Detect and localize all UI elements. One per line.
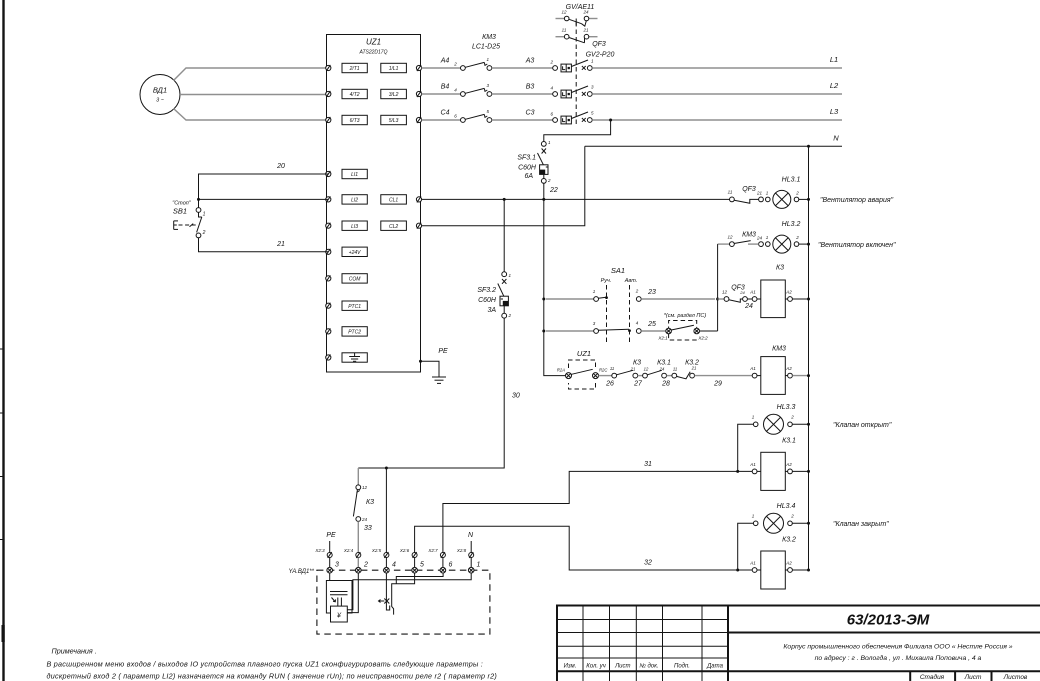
svg-text:PTC1: PTC1 [348,304,361,310]
svg-text:LI3: LI3 [351,224,358,230]
svg-text:КМ3: КМ3 [742,232,756,239]
QF3 pole 3 [550,111,594,124]
UZ1 terminal 4/T2 [326,89,368,98]
notes text [47,647,498,681]
GV/AE11 NC contact 11-21 [556,28,598,43]
svg-text:PE: PE [326,532,336,539]
svg-text:C4: C4 [441,110,450,117]
UZ1 terminal PTC2 [326,327,368,336]
UZ1 terminal LI3 [326,221,368,230]
document number 63/2013-ЭМ [847,612,930,629]
svg-text:LI2: LI2 [351,198,358,204]
stop button SB1 [172,201,205,238]
svg-text:Лист: Лист [614,664,630,670]
PE ground symbol [419,348,448,383]
wire 26 / contact K3 27 / contact K3.1 28 / contact K3.2 29 [599,360,753,388]
svg-text:12: 12 [362,485,368,490]
svg-text:X2:5: X2:5 [371,548,382,553]
relay coil K3.2 [749,551,810,589]
soft starter UZ1 ATS22D17Q block [327,35,421,373]
svg-text:SA1: SA1 [611,266,625,275]
svg-text:HL3.3: HL3.3 [777,404,796,411]
svg-text:A3: A3 [525,58,535,65]
svg-text:6: 6 [449,562,453,569]
svg-text:GV2-P20: GV2-P20 [586,52,615,59]
svg-text:2: 2 [547,178,551,183]
wire B3 [492,84,553,95]
svg-text:11: 11 [562,28,567,33]
svg-text:5/L3: 5/L3 [389,118,399,124]
svg-text:31: 31 [644,461,652,468]
KM3 aux contact 12-24 [718,232,764,247]
breaker SF3.1 C60H 6A [517,140,558,199]
svg-text:КМ3: КМ3 [772,346,786,353]
svg-text:В расширенном меню входов / вы: В расширенном меню входов / выходов IO у… [47,660,484,669]
svg-text:2/T1: 2/T1 [349,66,360,72]
svg-text:Листов: Листов [1003,674,1028,681]
wire A4 [422,58,461,69]
svg-text:2: 2 [453,62,457,67]
svg-text:КМ3: КМ3 [482,34,496,41]
svg-text:3 ~: 3 ~ [156,98,165,104]
svg-text:2: 2 [795,235,799,240]
svg-text:2: 2 [795,191,799,196]
svg-text:COM: COM [349,277,362,283]
svg-text:2: 2 [363,562,368,569]
svg-text:"Клапан открыт": "Клапан открыт" [833,422,892,429]
svg-text:A2: A2 [785,462,792,467]
svg-text:3А: 3А [487,307,496,314]
terminal X2:3 (PE) [314,532,336,567]
UZ1 terminal CL2 [381,221,422,230]
svg-text:20: 20 [276,163,285,170]
svg-text:C3: C3 [526,110,535,117]
QF3 pole 1 [549,59,594,72]
svg-text:11: 11 [728,190,733,195]
svg-text:C60H: C60H [518,165,537,172]
UZ1 terminal 2/T1 [326,63,368,72]
svg-text:К3: К3 [366,499,374,506]
svg-text:ВД1: ВД1 [153,86,167,95]
wire 25 / SA1 contact 3-4 [546,321,666,334]
svg-text:24: 24 [582,10,589,15]
border tick marks [0,349,5,642]
svg-text:SB1: SB1 [173,207,187,216]
svg-text:UZ1: UZ1 [366,38,381,47]
contactor KM3 main contact C4 [461,109,492,122]
contactor KM3 main contact A4 [461,57,492,70]
QF3 pole 2 [550,85,594,98]
circuit breaker QF3 GV2-P20 label [586,41,615,59]
motor ВД1 [140,75,180,115]
remote contact X2:1-X2:2 (см. раздел ПС) [657,313,708,341]
svg-text:2: 2 [549,60,553,65]
wire motor phase B [180,94,328,96]
svg-text:A4: A4 [440,58,450,65]
breaker SF3.2 C60H 3A [477,199,511,318]
svg-text:"Клапан закрыт": "Клапан закрыт" [833,521,889,528]
svg-text:CL1: CL1 [389,198,398,204]
svg-text:1/L1: 1/L1 [389,66,399,72]
svg-text:5: 5 [420,562,424,569]
svg-text:LC1-D25: LC1-D25 [472,44,500,51]
wire X2:5 drop [385,468,387,553]
svg-text:PTC2: PTC2 [348,330,361,336]
QF3 aux contact to K3 [718,285,753,311]
svg-text:B3: B3 [526,84,535,91]
svg-text:Дата: Дата [706,664,723,670]
svg-text:L2: L2 [830,81,839,90]
wire LI2 [197,198,328,201]
svg-text:2: 2 [790,514,794,519]
QF3 aux contact 11-21 [728,186,764,203]
svg-text:21: 21 [582,28,589,33]
svg-text:24: 24 [756,236,763,241]
selector switch SA1 [601,266,638,344]
wire L2 [592,81,842,94]
svg-text:21: 21 [630,367,636,372]
svg-text:C60H: C60H [478,297,497,304]
svg-text:1: 1 [203,212,206,218]
svg-text:К3.2: К3.2 [782,537,796,544]
UZ1 terminal 6/T3 [326,115,368,124]
svg-text:№ док.: № док. [639,663,658,670]
svg-text:24: 24 [739,290,745,295]
project address [783,643,1012,663]
svg-text:A1: A1 [749,366,756,371]
label Вентилятор авария [820,197,894,204]
terminal X2:5 [371,548,389,567]
stage sheet headers [920,673,1028,681]
svg-text:"Вентилятор авария": "Вентилятор авария" [820,197,894,204]
svg-text:X2:2: X2:2 [697,336,708,341]
wire 23 / SA1 contact 1-2 [546,289,715,302]
wire 31 [443,461,752,553]
svg-text:25: 25 [647,321,656,328]
wire 20 (LI1) [199,163,329,208]
title block headers [564,663,724,670]
UZ1 relay contact R2A-R2C [557,349,609,389]
svg-text:К3.1: К3.1 [782,438,796,445]
svg-text:12: 12 [722,290,728,295]
wire CL1 bus [422,198,730,201]
svg-text:23: 23 [647,289,656,296]
svg-text:HL3.1: HL3.1 [782,177,801,184]
contactor KM3 main contact B4 [461,83,492,96]
svg-text:4: 4 [392,562,396,569]
svg-text:R2C: R2C [599,368,608,373]
N vertical bus [808,146,810,570]
svg-text:A2: A2 [785,290,792,295]
svg-text:24: 24 [744,303,753,310]
wire from L3 to SF3.1 [544,120,611,141]
svg-text:12: 12 [727,235,733,240]
svg-text:дискретный вход 2 ( параметр: дискретный вход 2 ( параметр LI2) назнач… [47,672,498,681]
label Клапан закрыт [833,521,889,528]
valve unit YA.ВД1 dashed box [289,569,490,634]
terminal X2:8 (N) [456,532,474,567]
svg-text:X2:8: X2:8 [456,548,467,553]
label Клапан открыт [833,422,892,429]
svg-text:21: 21 [756,191,763,196]
lamp HL3.4 [738,503,810,570]
svg-text:2: 2 [635,289,639,294]
YA pin 6 [440,562,452,574]
svg-text:12: 12 [644,367,649,372]
wire motor phase C [174,109,329,121]
svg-text:6/T3: 6/T3 [350,118,360,124]
svg-text:PE: PE [438,348,448,355]
svg-text:X2:7: X2:7 [427,548,438,553]
svg-text:Руч.: Руч. [601,278,612,284]
svg-text:L3: L3 [830,107,839,116]
svg-text:*(см. раздел ПС): *(см. раздел ПС) [664,313,707,319]
svg-text:27: 27 [633,381,643,388]
title block grid [556,606,1040,681]
svg-text:22: 22 [549,187,558,194]
svg-text:63/2013-ЭМ: 63/2013-ЭМ [847,612,930,629]
terminal X2:6 [399,548,417,567]
svg-text:2: 2 [790,415,794,420]
wire A3 [492,58,553,69]
UZ1 terminal CL1 [381,195,422,204]
svg-text:4/T2: 4/T2 [350,92,360,98]
svg-text:L1: L1 [830,55,838,64]
terminal X2:4 [343,548,361,567]
svg-text:X2:3: X2:3 [314,548,325,553]
svg-text:К3: К3 [633,360,641,367]
QF3 mechanical link dashed line [575,22,577,127]
svg-text:X2:4: X2:4 [343,548,354,553]
svg-text:3: 3 [335,562,339,569]
svg-text:по адресу : г . Вологда , ул: по адресу : г . Вологда , ул . Михаила П… [815,654,982,662]
GV/AE11 NO contact 12-24 [556,10,598,27]
YA pin 2 [356,562,369,574]
UZ1 terminal 1/L1 [381,63,422,72]
wire C3 [492,110,553,121]
flow switch symbol [379,599,390,604]
svg-text:UZ1: UZ1 [577,349,591,358]
wire motor phase A [174,68,329,81]
wire 30 [358,318,520,469]
label Вентилятор включен [818,242,896,249]
wire B4 [422,84,461,95]
lamp HL3.3 [738,404,810,471]
svg-text:Корпус промышленного обеспечен: Корпус промышленного обеспечения Филиала… [783,643,1012,651]
UZ1 terminal PTC1 [326,301,368,310]
svg-text:11: 11 [610,366,614,371]
svg-text:YA.ВД1**: YA.ВД1** [289,569,315,575]
svg-text:Стадия: Стадия [920,673,945,681]
terminal X2:7 [427,548,445,567]
svg-text:К3.1: К3.1 [657,360,671,367]
wire X2:2 to node [700,330,718,332]
relay coil K3 [747,265,810,318]
svg-text:"Вентилятор включен": "Вентилятор включен" [818,242,896,249]
svg-text:B4: B4 [441,84,450,91]
svg-text:LI1: LI1 [351,172,358,178]
svg-text:2: 2 [202,230,206,236]
valve internal wiring [347,573,471,615]
svg-text:21: 21 [276,241,285,248]
wire L1 [592,55,842,68]
svg-text:A2: A2 [785,561,792,566]
auxiliary contact block GV/AE11 [566,4,595,11]
svg-text:32: 32 [644,560,652,567]
svg-text:Изм.: Изм. [564,664,577,670]
lamp HL3.1 [766,177,811,209]
svg-text:A1: A1 [749,290,756,295]
K3 aux contact 12-24 (wire 33) [353,468,374,553]
YA pin 3 [327,562,339,574]
border frame left line [2,0,4,681]
svg-text:CL2: CL2 [389,224,398,230]
svg-text:6А: 6А [524,173,533,180]
svg-text:ATS22D17Q: ATS22D17Q [359,50,388,56]
svg-text:12: 12 [561,10,567,15]
relay coil K3.1 [749,452,810,490]
svg-text:GV/AE11: GV/AE11 [566,4,595,11]
svg-text:HL3.4: HL3.4 [777,503,796,510]
svg-text:Авт.: Авт. [624,278,638,284]
svg-text:Подп.: Подп. [674,664,690,670]
YA pin 1 [468,562,480,574]
svg-text:3/L2: 3/L2 [389,92,399,98]
wire 21 (+24V) [199,238,329,252]
svg-text:SF3.2: SF3.2 [477,287,496,294]
svg-text:28: 28 [661,381,670,388]
svg-text:A1: A1 [749,561,756,566]
wire CL2 to N [422,146,585,225]
svg-text:A1: A1 [749,462,756,467]
UZ1 terminal COM [326,274,368,283]
svg-text:X2:6: X2:6 [399,548,410,553]
UZ1 terminal LI2 [326,195,368,204]
svg-text:26: 26 [605,381,614,388]
UZ1 ground terminal [326,353,368,362]
svg-text:30: 30 [512,393,520,400]
svg-text:Лист: Лист [964,674,982,681]
contactor coil KM3 [749,346,810,395]
lamp HL3.2 [766,221,811,253]
svg-text:К3: К3 [776,265,784,272]
svg-text:A2: A2 [785,366,792,371]
svg-text:2: 2 [508,313,512,318]
svg-text:1: 1 [477,562,481,569]
svg-text:QF3: QF3 [742,186,756,193]
UZ1 terminal 3/L2 [381,89,422,98]
svg-text:N: N [833,134,839,143]
svg-text:11: 11 [673,367,677,372]
svg-text:+24V: +24V [349,250,361,256]
wire L3 [592,107,842,122]
svg-text:29: 29 [713,381,722,388]
solenoid valve symbol [326,573,352,622]
YA pin 5 [412,562,424,574]
svg-text:R2A: R2A [557,368,565,373]
svg-text:SF3.1: SF3.1 [517,155,536,162]
svg-text:Примечания .: Примечания . [52,647,97,656]
svg-text:24: 24 [361,517,368,522]
contactor KM3 label [472,34,500,51]
svg-text:21: 21 [691,366,697,371]
svg-text:HL3.2: HL3.2 [782,221,801,228]
UZ1 terminal +24V [326,247,368,256]
YA pin 4 [384,562,396,574]
wire 32 [415,526,753,571]
svg-text:X2:1: X2:1 [657,336,668,341]
wire C4 [422,110,461,121]
svg-text:33: 33 [364,525,372,532]
UZ1 terminal 5/L3 [381,115,422,124]
svg-text:24: 24 [659,367,665,372]
left control bus [542,199,566,375]
vertical wire from KM3 aux to rows 23/25 [716,244,719,331]
UZ1 terminal LI1 [326,169,368,178]
svg-text:Кол. уч: Кол. уч [586,664,606,670]
wire N [585,134,842,148]
svg-text:QF3: QF3 [592,41,606,48]
